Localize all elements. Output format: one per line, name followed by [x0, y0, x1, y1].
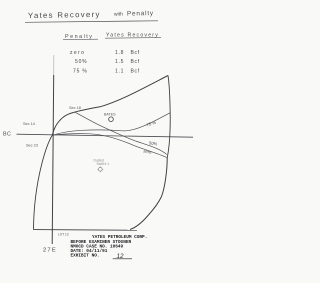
- title: YATES RECOVERY with PENALTY: [28, 9, 154, 20]
- 75% curve: [53, 113, 171, 136]
- table header underline 2: [105, 37, 161, 40]
- svg-text:Bcf: Bcf: [131, 69, 140, 75]
- svg-text:Sec 14: Sec 14: [23, 122, 35, 126]
- svg-text:1.5: 1.5: [115, 59, 124, 65]
- zero curve: [52, 134, 166, 158]
- svg-text:with: with: [114, 11, 123, 17]
- svg-text:27E: 27E: [43, 247, 57, 253]
- svg-text:Penalty: Penalty: [127, 10, 154, 17]
- svg-text:1.8: 1.8: [115, 50, 124, 56]
- svg-text:50%: 50%: [75, 59, 87, 65]
- big bottom sweeping curve: [130, 158, 167, 230]
- svg-text:Bcf: Bcf: [131, 59, 140, 65]
- svg-text:75 %: 75 %: [73, 69, 88, 75]
- right boundary line: [167, 76, 170, 159]
- svg-text:Yates Recovery: Yates Recovery: [28, 10, 101, 20]
- BC horizontal section line: [17, 134, 194, 137]
- 50% curve (descending from top boundary): [75, 112, 167, 154]
- exhibit stamp text block: [71, 235, 148, 260]
- svg-text:Swift # 1: Swift # 1: [97, 162, 110, 166]
- exhibit number underline: [113, 258, 132, 260]
- svg-text:BATES: BATES: [104, 112, 116, 116]
- svg-text:Bcf: Bcf: [131, 50, 140, 56]
- svg-text:LOT 13: LOT 13: [58, 232, 69, 236]
- left boundary curve: [34, 135, 53, 230]
- svg-text:Sec 18: Sec 18: [69, 106, 81, 110]
- svg-text:zero: zero: [70, 50, 85, 56]
- top boundary curve of recovery area: [52, 76, 168, 135]
- BATES well symbol circle: [109, 117, 114, 122]
- title underline: [25, 21, 158, 23]
- bottom horizontal lot line: [34, 229, 138, 232]
- vertical section line: [53, 55, 55, 75]
- svg-text:EXHIBIT NO.: EXHIBIT NO.: [71, 254, 100, 259]
- dry hole symbol: [97, 166, 103, 172]
- svg-text:BC: BC: [3, 132, 11, 138]
- table header underline 1: [63, 38, 98, 40]
- svg-text:Sec 23: Sec 23: [26, 144, 38, 148]
- svg-text:1.1: 1.1: [115, 69, 124, 75]
